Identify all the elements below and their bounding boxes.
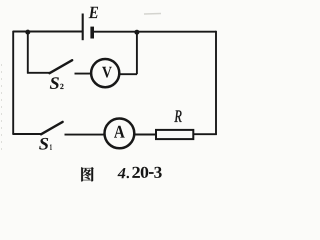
wire right vertical <box>215 31 217 135</box>
voltmeter V circle <box>91 59 119 87</box>
wire resistor to right corner <box>193 133 217 135</box>
wire left vertical <box>12 31 14 134</box>
scan smudge artifact top <box>144 13 161 16</box>
voltmeter letter V <box>102 67 112 78</box>
battery E long plate <box>82 14 84 41</box>
wire riser up to node B <box>136 32 138 74</box>
switch S1 blade <box>41 122 63 134</box>
node B junction dot <box>134 30 139 35</box>
wire S2 to voltmeter <box>75 73 92 75</box>
wire node A down to S2 branch <box>27 32 29 74</box>
wire bottom-left segment <box>12 133 41 135</box>
battery E short thick plate <box>90 27 94 39</box>
wire ammeter to resistor <box>135 134 156 136</box>
ammeter letter A <box>114 126 125 138</box>
caption digit 3 <box>154 167 161 178</box>
switch S2 blade <box>50 60 73 73</box>
label E (battery emf) <box>89 7 99 18</box>
wire voltmeter to right riser <box>119 73 137 75</box>
label S2 subscript 2 <box>60 84 63 89</box>
wire top-left segment <box>13 31 82 33</box>
node A junction dot <box>25 30 30 35</box>
wire S1 to ammeter <box>65 134 105 136</box>
label R (resistor value label) <box>174 111 181 122</box>
caption digit 2 <box>132 167 140 178</box>
resistor R box <box>156 130 193 139</box>
wire S2 branch horizontal <box>27 72 50 74</box>
scan edge artifact left <box>1 64 3 152</box>
caption Chinese character tu (figure) <box>81 167 93 181</box>
label S2 letter S <box>50 77 59 89</box>
ammeter A circle <box>105 118 135 148</box>
caption period <box>127 176 129 178</box>
label S1 letter S <box>39 138 48 150</box>
caption digit 0 <box>141 167 149 178</box>
wire top-right segment <box>94 31 217 33</box>
caption hyphen <box>149 172 154 174</box>
caption digit 4 <box>117 168 125 178</box>
label S1 subscript 1 <box>50 144 52 149</box>
